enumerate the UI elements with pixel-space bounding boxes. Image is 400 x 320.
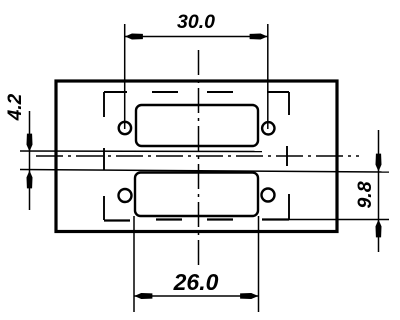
dimension 4.2 label [5,93,26,121]
dimension 30.0 label [177,11,215,33]
dimension 26.0 arrow right [241,293,258,298]
dimension 30.0 extension line left [124,24,126,129]
svg-text:9.8: 9.8 [354,181,376,208]
svg-text:30.0: 30.0 [177,11,215,33]
dimension 4.2 arrow lower [27,172,32,189]
dimension 30.0 arrow right [250,34,267,39]
dimension 4.2 line [29,111,31,210]
centerline horizontal [36,155,359,157]
svg-text:26.0: 26.0 [173,269,219,295]
dimension 30.0 arrow left [126,34,143,39]
panel outline [56,81,337,232]
dimension 9.8 line [378,130,380,252]
dimension 26.0 extension line right [258,216,260,312]
dimension 9.8 label [354,181,376,208]
dimension 26.0 arrow left [135,293,152,298]
dimension 9.8 arrow lower [376,221,381,238]
hidden outline left edge [103,92,105,220]
dimension 4.2 arrow upper [27,134,32,151]
dimension 30.0 line [125,36,268,38]
dimension 26.0 label [173,269,219,295]
hole top-left [119,122,131,134]
dimension 30.0 extension line right [267,24,269,129]
svg-text:4.2: 4.2 [5,93,26,121]
dimension 9.8 arrow upper [376,154,381,171]
hidden outline bottom edge [104,220,289,221]
dimension 26.0 line [134,295,259,297]
dimension 26.0 extension line left [133,216,135,312]
dimension 9.8 extension line lower [289,219,389,221]
hole top-right [262,122,274,134]
hidden outline right edge [287,92,289,220]
centerline vertical [198,50,200,268]
reference line upper [20,150,262,153]
reference line lower [20,170,389,173]
hole bottom-right [262,189,275,202]
hidden outline top edge [104,91,289,93]
top cutout [136,105,258,146]
hole bottom-left [119,189,132,202]
bottom cutout [135,173,258,217]
